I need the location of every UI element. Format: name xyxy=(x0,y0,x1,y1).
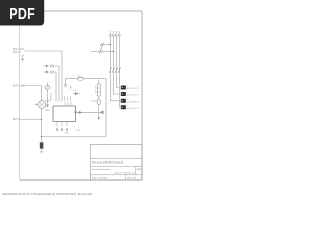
connector X4 xyxy=(121,105,140,110)
svg-text:www.ars-elektronik.com: www.ars-elektronik.com xyxy=(114,172,135,175)
breaker tick CB-L2 xyxy=(112,68,115,74)
svg-text:Document Number: Document Number xyxy=(92,168,111,171)
svg-text:Date: 24.8.2011: Date: 24.8.2011 xyxy=(92,177,108,180)
page border frame xyxy=(20,10,143,12)
connector arrow J5 xyxy=(66,128,68,131)
breaker tick CB-L3 xyxy=(115,68,118,74)
terminal T4 xyxy=(118,31,120,36)
crystal Y1 xyxy=(70,85,72,90)
svg-text:MOV-0: MOV-0 xyxy=(13,117,22,121)
terminal T1 xyxy=(109,31,111,36)
svg-text:L3: L3 xyxy=(126,99,128,101)
connector arrow J3 xyxy=(56,128,58,131)
svg-text:FIG 8_M_PROTECTION_B: FIG 8_M_PROTECTION_B xyxy=(92,162,123,165)
wire net12 xyxy=(91,50,100,52)
connector arrow J4 xyxy=(61,128,63,131)
breaker CB1 xyxy=(99,42,103,53)
svg-text:POP: POP xyxy=(76,130,81,132)
svg-text:REV: REV xyxy=(137,169,142,171)
connector X3 xyxy=(121,99,140,104)
junction node D xyxy=(113,51,115,53)
connector arrow J2 xyxy=(46,105,49,108)
wire bus L1 xyxy=(110,36,119,101)
svg-text:22/02/2015 19:42:47 C:\Pspice: 22/02/2015 19:42:47 C:\Pspice\FIG8_M_PRO… xyxy=(2,192,92,196)
junction node A xyxy=(41,119,43,121)
svg-text:L2: L2 xyxy=(126,92,128,94)
PDF badge xyxy=(0,0,44,26)
junction node C xyxy=(110,44,112,46)
wire net11 xyxy=(102,44,110,46)
title block xyxy=(91,145,143,181)
svg-text:PDF: PDF xyxy=(9,6,35,24)
wire net7 xyxy=(42,79,107,137)
wire net2 xyxy=(54,66,60,102)
connector arrow J7 xyxy=(75,111,78,114)
svg-text:POWER: POWER xyxy=(49,93,51,102)
VCC arrow symbol xyxy=(21,58,24,62)
relay contact K1 xyxy=(96,79,100,96)
node label tick xyxy=(22,56,25,57)
wire net9 xyxy=(47,89,49,104)
wire stub net8a xyxy=(65,79,67,84)
IC U1 xyxy=(53,106,76,122)
wire net1 xyxy=(25,51,63,102)
wire net13 xyxy=(102,50,113,52)
connector X1 xyxy=(121,85,140,90)
wire net3 xyxy=(54,72,57,102)
pin stubs U1 bottom xyxy=(57,122,67,127)
svg-text:AC-M SUPPLY: AC-M SUPPLY xyxy=(126,107,139,110)
motor M1 xyxy=(35,100,51,108)
pin labels U1 top xyxy=(65,97,71,101)
terminal T3 xyxy=(115,31,117,36)
connector pin P1 xyxy=(43,65,49,68)
breaker tick CB-N xyxy=(118,68,121,74)
svg-text:AC-M SUPPLY: AC-M SUPPLY xyxy=(126,94,139,97)
wire bus L3 xyxy=(116,36,119,87)
wire net10 xyxy=(78,111,104,113)
pin U1 right xyxy=(76,112,80,114)
connector arrow J8 xyxy=(100,111,104,114)
fuse F2 xyxy=(78,75,84,80)
wire bus N xyxy=(118,36,120,107)
svg-text:Sheet 1/1: Sheet 1/1 xyxy=(127,177,137,180)
wire net6 xyxy=(41,108,43,142)
diode D3 xyxy=(64,84,67,86)
terminal T2 xyxy=(112,31,114,36)
connector X2 xyxy=(121,92,140,97)
wire net5 xyxy=(22,119,42,121)
svg-text:PWR: PWR xyxy=(45,110,50,112)
svg-text:AC-M SUPPLY: AC-M SUPPLY xyxy=(126,87,139,90)
wire bus L2 xyxy=(113,36,119,94)
wire net8 xyxy=(66,78,107,80)
pin stubs U1 top xyxy=(65,102,71,107)
diode D2 xyxy=(73,90,80,95)
svg-text:L1: L1 xyxy=(126,85,128,87)
LED D1 xyxy=(40,143,43,152)
breaker tick CB-L1 xyxy=(109,68,112,74)
connector arrow J6 xyxy=(79,111,82,114)
svg-text:MOV-1: MOV-1 xyxy=(13,50,22,54)
fuse F3 xyxy=(91,96,101,120)
wire net4 xyxy=(22,86,42,101)
ground xyxy=(40,151,43,154)
svg-text:GND: GND xyxy=(65,132,70,134)
connector pin P2 xyxy=(43,71,49,74)
neon lamp NE1 xyxy=(45,83,50,90)
svg-text:AC-M SUPPLY: AC-M SUPPLY xyxy=(126,100,139,103)
junction node B xyxy=(41,136,43,138)
